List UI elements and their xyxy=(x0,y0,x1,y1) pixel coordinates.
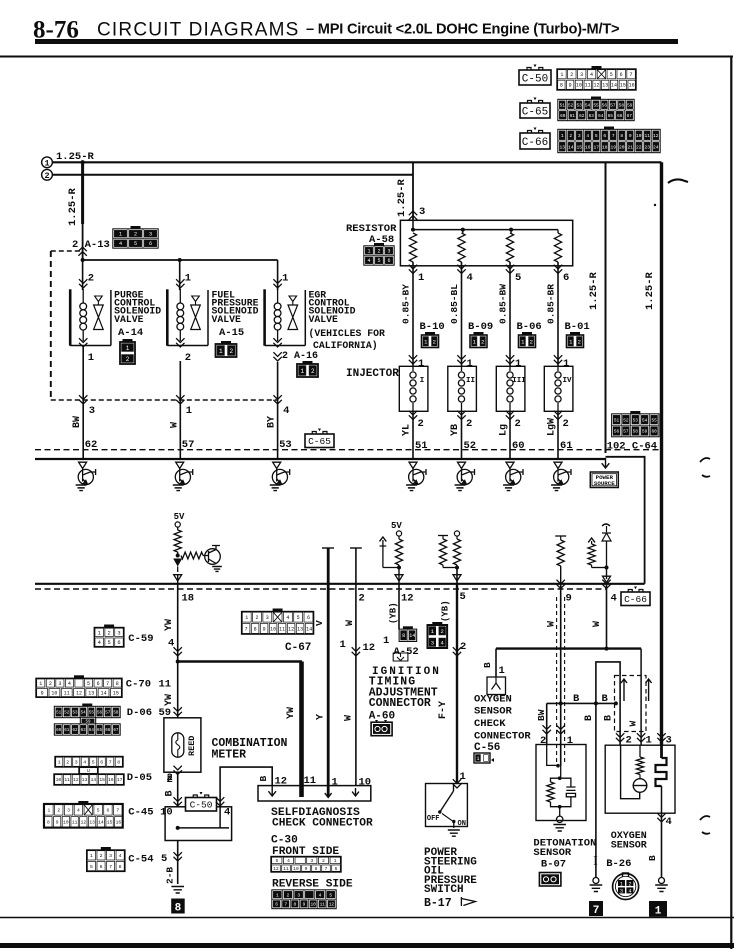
svg-text:4: 4 xyxy=(467,272,473,284)
injector IV body xyxy=(544,366,573,411)
svg-text:1: 1 xyxy=(655,906,662,918)
svg-text:8: 8 xyxy=(47,819,50,825)
svg-text:1: 1 xyxy=(561,133,564,139)
svg-text:ON: ON xyxy=(458,820,466,828)
resistor 5V pin 12 group xyxy=(396,531,401,536)
svg-text:22: 22 xyxy=(636,144,642,150)
svg-text:SENSOR: SENSOR xyxy=(611,841,647,852)
svg-text:13: 13 xyxy=(82,777,88,783)
svg-text:2: 2 xyxy=(287,892,290,898)
ground detonation sensor xyxy=(553,825,566,832)
connector C-56 pin icon xyxy=(474,753,490,763)
svg-text:BW: BW xyxy=(72,416,83,428)
connector B-26 round icon xyxy=(613,873,639,900)
svg-text:LgW: LgW xyxy=(547,418,558,436)
svg-text:16: 16 xyxy=(116,819,122,825)
svg-text:VALVE: VALVE xyxy=(309,314,339,325)
svg-text:7: 7 xyxy=(245,626,248,632)
wire oxygen pin 4 to ground xyxy=(661,813,663,878)
connector C-64 pin grid icon xyxy=(612,411,659,437)
svg-text:1: 1 xyxy=(515,358,521,370)
dashed connector boundary above ECU xyxy=(35,449,662,451)
svg-text:SENSOR: SENSOR xyxy=(533,847,572,859)
solenoid A-14 bottom chevron and pin 1 xyxy=(79,338,87,347)
svg-text:58: 58 xyxy=(633,430,639,435)
node chevron pin 4 inside ECU xyxy=(603,576,611,582)
wire bus B from node 2 xyxy=(53,174,414,176)
connector legend C-50 pin grid xyxy=(557,66,636,90)
svg-text:3: 3 xyxy=(266,615,269,621)
svg-text:2: 2 xyxy=(100,853,103,859)
svg-text:21: 21 xyxy=(627,144,633,150)
junction pin 12 group xyxy=(383,567,399,569)
svg-text:53: 53 xyxy=(72,712,78,716)
svg-text:7: 7 xyxy=(116,808,119,814)
svg-text:14: 14 xyxy=(409,633,415,639)
wire injector I to ECU pin 51 xyxy=(412,411,414,459)
shield dashed left xyxy=(556,597,558,764)
svg-text:1: 1 xyxy=(467,358,473,370)
svg-text:16: 16 xyxy=(585,144,591,150)
connector C-50 inline symbol at junction box xyxy=(186,792,217,811)
svg-text:B-01: B-01 xyxy=(565,321,590,333)
svg-text:1: 1 xyxy=(58,760,61,766)
wire resistor output 6 to injector IV xyxy=(557,262,559,366)
svg-text:B: B xyxy=(573,693,580,705)
connector C-70 pin grid icon xyxy=(36,675,122,697)
svg-text:1: 1 xyxy=(98,630,101,636)
svg-text:10: 10 xyxy=(293,866,299,872)
scan mark right middle xyxy=(700,458,710,477)
resistor R1 in A-58 xyxy=(409,233,416,262)
page footer thick line xyxy=(0,943,734,948)
svg-text:7: 7 xyxy=(630,72,633,78)
svg-text:4: 4 xyxy=(77,808,80,814)
wire ECU pin 4 down to B junction xyxy=(606,584,608,649)
svg-text:15: 15 xyxy=(620,83,626,89)
svg-text:6: 6 xyxy=(603,133,606,139)
svg-text:9: 9 xyxy=(263,626,266,632)
svg-text:6: 6 xyxy=(563,272,569,284)
wire oxygen pin 2 inside xyxy=(621,745,640,799)
power steering oil pressure switch box xyxy=(426,784,468,827)
connector A-52 pin icon xyxy=(399,626,416,641)
svg-text:Lg: Lg xyxy=(499,424,510,436)
svg-text:60: 60 xyxy=(651,430,657,435)
svg-text:2: 2 xyxy=(441,628,444,635)
wire bus A from node 1 xyxy=(53,161,662,163)
ground power steering switch xyxy=(448,830,460,836)
svg-text:4: 4 xyxy=(224,807,230,819)
svg-text:15: 15 xyxy=(107,819,113,825)
svg-text:C-56: C-56 xyxy=(474,742,500,754)
node chevron injector bottom pin 2 xyxy=(554,411,562,420)
node chevron injector top pin 1 xyxy=(554,355,562,364)
svg-text:60: 60 xyxy=(560,114,566,119)
svg-text:18: 18 xyxy=(182,593,195,605)
resistor 5V pin 5 group xyxy=(454,531,459,536)
svg-text:57: 57 xyxy=(105,712,111,716)
svg-text:I: I xyxy=(420,377,425,385)
connector C-30 front side pin grid xyxy=(271,857,341,873)
transistor Q4 injector 1 driver xyxy=(409,469,426,485)
svg-text:4: 4 xyxy=(590,72,593,78)
node chevron pin 4 below ECU xyxy=(602,580,610,589)
svg-text:12: 12 xyxy=(81,819,87,825)
oxygen sensor element circle xyxy=(633,779,647,793)
svg-text:3: 3 xyxy=(117,630,120,636)
header thin rule xyxy=(0,56,733,58)
svg-text:13: 13 xyxy=(88,690,94,696)
ECU power source block xyxy=(590,472,618,488)
svg-text:12: 12 xyxy=(73,777,79,783)
svg-text:16: 16 xyxy=(108,777,114,783)
node chevron below resistor pin 4 xyxy=(457,265,465,274)
svg-text:B-09: B-09 xyxy=(468,321,493,333)
svg-text:57: 57 xyxy=(610,103,616,108)
wire fuel solenoid to ECU pin 57 xyxy=(179,361,181,459)
wire bus A drop to ECU pin 102 xyxy=(605,162,607,453)
svg-text:C-70: C-70 xyxy=(126,679,151,691)
svg-text:5V: 5V xyxy=(391,521,402,531)
solenoid A-16 bottom chevron and pin xyxy=(273,338,281,347)
wire bus A right corner heavy 1.25-R drop xyxy=(660,162,663,745)
svg-text:17: 17 xyxy=(593,144,599,150)
node crossing california dashed on wire W xyxy=(176,395,184,404)
svg-text:11: 11 xyxy=(279,626,285,632)
page right edge line xyxy=(730,57,732,950)
ground for meter circuit xyxy=(171,887,184,894)
svg-text:B: B xyxy=(165,790,176,796)
resistor pin 4 group xyxy=(588,538,595,542)
terminal circle B wire ground xyxy=(593,878,599,884)
svg-text:6: 6 xyxy=(100,864,103,870)
ECU bottom boundary line xyxy=(35,583,645,585)
svg-text:4: 4 xyxy=(666,816,672,828)
svg-text:12: 12 xyxy=(363,642,376,654)
svg-text:1: 1 xyxy=(119,232,122,238)
solenoid A-14 body xyxy=(69,289,72,345)
node 2 circled terminal xyxy=(42,169,53,180)
svg-text:62: 62 xyxy=(72,729,78,733)
node chevron pin 18 inside ECU xyxy=(174,575,182,581)
svg-text:1: 1 xyxy=(418,358,424,370)
svg-text:C-54: C-54 xyxy=(128,854,153,866)
connector C-30 reverse side pin grid xyxy=(272,890,336,909)
svg-text:5: 5 xyxy=(595,133,598,139)
svg-text:B: B xyxy=(602,693,609,705)
svg-text:W: W xyxy=(628,721,639,727)
svg-text:12: 12 xyxy=(401,593,414,605)
node pin 3 of C-64 on resistor feed xyxy=(409,211,417,220)
svg-text:6: 6 xyxy=(149,241,152,247)
node chevron into C-50 box pin 10 xyxy=(174,797,182,806)
connector C-65 inline symbol xyxy=(305,429,334,448)
svg-text:3: 3 xyxy=(387,249,390,255)
svg-text:OXYGEN: OXYGEN xyxy=(474,694,512,706)
svg-text:1: 1 xyxy=(476,756,479,762)
svg-text:1.25-R: 1.25-R xyxy=(588,271,600,310)
svg-text:7: 7 xyxy=(284,902,287,908)
svg-text:20: 20 xyxy=(619,144,625,150)
svg-text:W: W xyxy=(592,621,603,627)
svg-text:C-59: C-59 xyxy=(128,633,153,645)
svg-text:66: 66 xyxy=(105,729,111,733)
detonation sensor box xyxy=(536,745,586,821)
node chevron injector top pin 1 xyxy=(409,355,417,364)
svg-text:W: W xyxy=(169,422,180,428)
resistor block A-58 outline xyxy=(400,220,572,265)
svg-text:54: 54 xyxy=(81,712,87,716)
svg-text:CALIFORNIA): CALIFORNIA) xyxy=(313,340,378,351)
node chevron into ECU xyxy=(176,462,184,468)
ground oxygen sensor xyxy=(655,885,668,892)
svg-text:1.25-R: 1.25-R xyxy=(396,178,408,217)
svg-text:2: 2 xyxy=(377,249,380,255)
svg-text:SOURCE: SOURCE xyxy=(594,480,615,487)
svg-text:2: 2 xyxy=(481,338,484,345)
svg-text:SWITCH: SWITCH xyxy=(424,884,464,896)
svg-text:10: 10 xyxy=(576,83,582,89)
self-diagnosis connector box xyxy=(258,786,371,801)
svg-text:5: 5 xyxy=(515,272,521,284)
svg-text:2: 2 xyxy=(515,418,521,430)
ECU top boundary line xyxy=(35,458,606,460)
svg-text:5: 5 xyxy=(329,892,332,898)
svg-text:9: 9 xyxy=(566,593,572,605)
svg-text:1: 1 xyxy=(563,358,569,370)
node chevron oxygen pin 3 xyxy=(657,733,665,742)
node chevron oxygen pin 1 xyxy=(637,733,645,742)
page reference black box 1 xyxy=(649,901,667,917)
svg-text:3: 3 xyxy=(67,808,70,814)
svg-text:C-66: C-66 xyxy=(522,137,548,149)
page footer thin line xyxy=(0,917,734,919)
svg-text:8: 8 xyxy=(254,626,257,632)
node chevron into C-50 box pin 4 xyxy=(216,797,224,806)
svg-text:8: 8 xyxy=(116,681,119,687)
svg-text:REVERSE SIDE: REVERSE SIDE xyxy=(272,879,353,891)
svg-text:55: 55 xyxy=(89,712,95,716)
diode to pin 18 xyxy=(173,559,182,567)
wire resistor output 1 to injector I xyxy=(412,262,414,366)
svg-text:6: 6 xyxy=(620,72,623,78)
switch lever xyxy=(453,784,455,792)
junction dot pin 18 node xyxy=(176,554,180,558)
wire resistor output 4 to injector II xyxy=(461,262,463,366)
svg-text:– MPI Circuit <2.0L DOHC Engin: – MPI Circuit <2.0L DOHC Engine (Turbo)-… xyxy=(306,22,619,38)
node chevron into ECU xyxy=(554,462,562,468)
svg-text:6: 6 xyxy=(387,258,390,264)
svg-text:55: 55 xyxy=(593,103,599,108)
svg-text:2: 2 xyxy=(322,858,325,864)
svg-text:4: 4 xyxy=(611,593,617,605)
svg-text:6: 6 xyxy=(335,866,338,872)
resistor detonation sensor xyxy=(551,778,560,782)
svg-text:65: 65 xyxy=(608,114,614,119)
wire from meter branch over to pin 4 xyxy=(220,767,272,807)
oxygen sensor box xyxy=(605,745,675,813)
svg-text:12: 12 xyxy=(288,626,294,632)
svg-text:1: 1 xyxy=(560,72,563,78)
dashed connector boundary below ECU xyxy=(35,588,607,590)
svg-text:17: 17 xyxy=(117,777,123,783)
svg-text:1: 1 xyxy=(88,352,94,364)
svg-text:INJECTOR: INJECTOR xyxy=(346,368,399,380)
wire very heavy drop to self-diagnosis pin 11 xyxy=(299,662,304,798)
svg-text:(YB): (YB) xyxy=(441,600,451,622)
svg-text:C-67: C-67 xyxy=(285,642,311,654)
svg-text:8: 8 xyxy=(560,83,563,89)
svg-text:9: 9 xyxy=(56,819,59,825)
zener diode pin 4 group xyxy=(602,524,610,526)
transistor Q6 injector 3 driver xyxy=(506,469,523,485)
svg-text:23: 23 xyxy=(644,144,650,150)
svg-text:IV: IV xyxy=(562,377,572,385)
wire pin 18 to combination meter xyxy=(177,584,179,718)
svg-text:11: 11 xyxy=(64,690,70,696)
svg-text:5: 5 xyxy=(161,853,167,865)
svg-text:I: I xyxy=(593,854,598,869)
wire solenoid supply bus xyxy=(83,259,278,261)
5V supply terminal circle xyxy=(175,522,180,527)
svg-text:15: 15 xyxy=(113,690,119,696)
transistor Q8 comparator xyxy=(203,546,220,565)
svg-text:8: 8 xyxy=(402,633,405,639)
node chevron A-16 crossing xyxy=(273,352,281,361)
svg-text:14: 14 xyxy=(306,626,312,632)
svg-text:C-50: C-50 xyxy=(190,800,213,811)
node 1 circled terminal xyxy=(42,157,53,168)
svg-text:1: 1 xyxy=(567,735,573,747)
wire check connector drop xyxy=(495,649,497,677)
svg-text:1: 1 xyxy=(300,368,304,375)
svg-text:5: 5 xyxy=(610,72,613,78)
svg-text:4: 4 xyxy=(628,889,631,895)
svg-text:10: 10 xyxy=(56,777,62,783)
ground B wire xyxy=(590,885,603,892)
solenoid A-15 body xyxy=(166,289,169,345)
svg-text:53: 53 xyxy=(633,418,639,423)
svg-text:2: 2 xyxy=(569,133,572,139)
node chevron oxygen pin 2 xyxy=(616,733,624,742)
junction pin 4 group xyxy=(592,567,607,569)
svg-text:6: 6 xyxy=(107,808,110,814)
svg-text:12: 12 xyxy=(273,866,279,872)
svg-text:VALVE: VALVE xyxy=(114,314,144,325)
connector B-09 pin icon xyxy=(470,332,487,348)
svg-text:C-65: C-65 xyxy=(522,106,548,118)
svg-text:1: 1 xyxy=(367,249,370,255)
svg-text:9: 9 xyxy=(629,133,632,139)
svg-text:1: 1 xyxy=(276,892,279,898)
connector C-45 pin grid icon xyxy=(44,801,123,828)
node chevron below combination meter xyxy=(174,766,182,775)
svg-text:52: 52 xyxy=(568,103,574,108)
svg-text:B-06: B-06 xyxy=(517,321,542,333)
svg-text:4: 4 xyxy=(586,133,589,139)
svg-text:14: 14 xyxy=(101,690,107,696)
svg-text:OFF: OFF xyxy=(427,815,440,823)
dashed shield box oxygen sensor xyxy=(615,676,647,732)
svg-text:4: 4 xyxy=(119,853,122,859)
svg-text:5: 5 xyxy=(377,258,380,264)
svg-text:YW: YW xyxy=(164,694,175,706)
svg-text:2 A-13: 2 A-13 xyxy=(72,239,110,251)
svg-text:1.25-R: 1.25-R xyxy=(67,187,79,226)
svg-text:2: 2 xyxy=(628,881,631,887)
wire injector IV to ECU pin 61 xyxy=(557,411,559,459)
svg-text:6: 6 xyxy=(97,681,100,687)
svg-text:60: 60 xyxy=(56,729,62,733)
resistor pull for pin 9 xyxy=(555,535,566,537)
svg-text:2: 2 xyxy=(563,418,569,430)
svg-text:14: 14 xyxy=(98,819,104,825)
svg-text:3: 3 xyxy=(310,858,313,864)
svg-text:YW: YW xyxy=(164,619,175,631)
svg-text:11: 11 xyxy=(304,775,317,787)
svg-text:1: 1 xyxy=(334,858,337,864)
svg-text:METER: METER xyxy=(212,749,247,762)
svg-text:59: 59 xyxy=(627,103,633,108)
wire oxygen pin 1 from B line corner xyxy=(640,649,642,745)
svg-text:B: B xyxy=(258,776,269,782)
zener diode pin 12 group xyxy=(380,537,387,541)
svg-text:2: 2 xyxy=(167,772,173,784)
wire 1.25-R vertical drop to A-13 xyxy=(81,162,84,224)
svg-text:C-30: C-30 xyxy=(271,835,298,847)
connector legend C-66 plug icon xyxy=(520,128,550,150)
connector C-50 junction box xyxy=(165,807,232,841)
junction pin 5 group xyxy=(442,565,444,568)
svg-text:A-15: A-15 xyxy=(219,327,244,339)
node chevron into power steering switch xyxy=(453,779,461,788)
svg-text:2: 2 xyxy=(126,356,130,363)
svg-text:13: 13 xyxy=(602,83,608,89)
svg-text:53: 53 xyxy=(576,103,582,108)
wire ECU pin 12 down to A-52 xyxy=(398,584,400,630)
svg-text:4: 4 xyxy=(119,241,122,247)
svg-text:C-50: C-50 xyxy=(522,73,548,85)
svg-text:2: 2 xyxy=(433,338,436,345)
svg-text:3: 3 xyxy=(149,232,152,238)
svg-text:12: 12 xyxy=(275,776,288,788)
svg-text:2: 2 xyxy=(570,72,573,78)
wire B ground bus xyxy=(547,702,616,704)
connector legend C-66 pin grid xyxy=(558,127,660,153)
svg-text:V: V xyxy=(314,620,325,626)
svg-text:2: 2 xyxy=(530,338,533,345)
svg-text:3: 3 xyxy=(419,206,425,218)
svg-text:CIRCUIT DIAGRAMS: CIRCUIT DIAGRAMS xyxy=(97,20,300,41)
wire det pin 2 inside xyxy=(547,745,558,766)
svg-text:2: 2 xyxy=(44,171,49,181)
connector A-58 pin grid icon xyxy=(364,243,394,265)
wire purge solenoid to ECU pin 62 xyxy=(82,347,84,459)
pennant symbol after B-17 xyxy=(461,897,475,906)
transistor Q7 injector 4 driver xyxy=(554,469,571,485)
svg-text:A-60: A-60 xyxy=(369,711,395,723)
node chevron into power source xyxy=(602,458,610,468)
connector A-16 pin icon xyxy=(297,361,318,377)
node chevron inline on pin5 wire xyxy=(453,647,461,656)
node chevron C-59 crossing xyxy=(174,647,182,656)
svg-text:65: 65 xyxy=(97,729,103,733)
svg-text:11: 11 xyxy=(320,902,326,908)
wire drop to EGR solenoid xyxy=(277,260,279,290)
reed switch symbol in combination meter xyxy=(172,733,184,757)
svg-text:10: 10 xyxy=(51,690,57,696)
